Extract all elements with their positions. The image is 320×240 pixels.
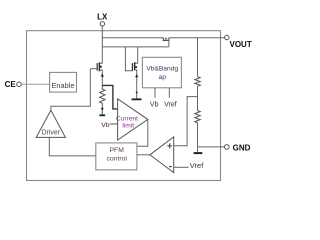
pin LX terminal bbox=[97, 13, 108, 26]
wire R2 to ground bbox=[197, 123, 199, 153]
wire rail to VOUT (top rail) bbox=[102, 37, 224, 39]
resistor Rsense bbox=[100, 85, 105, 114]
svg-text:Enable: Enable bbox=[51, 81, 74, 90]
svg-text:CE: CE bbox=[5, 80, 17, 89]
wire Vref stub bbox=[168, 88, 170, 98]
wire VOUT to divider bbox=[197, 38, 199, 77]
wire error comparator output to PFM bbox=[137, 154, 150, 156]
wire current sense to comparator bbox=[102, 85, 117, 109]
wire Q2 gate feed bbox=[125, 47, 132, 71]
pin CE terminal bbox=[5, 80, 22, 89]
wire CE to Enable bbox=[21, 83, 49, 85]
wire Vb stub bbox=[154, 88, 156, 98]
svg-text:Vb&Bandg: Vb&Bandg bbox=[146, 65, 178, 72]
svg-text:GND: GND bbox=[233, 144, 251, 153]
transistor M3 (sync switch, horizontal) bbox=[163, 38, 170, 47]
op-amp error comparator bbox=[150, 137, 174, 173]
ground (below Rsense) bbox=[99, 114, 105, 116]
ground (below Q2) bbox=[132, 98, 142, 100]
svg-text:PFM: PFM bbox=[110, 147, 125, 154]
svg-text:limit: limit bbox=[122, 123, 134, 130]
svg-text:control: control bbox=[106, 156, 127, 163]
wire feedback tap to + input bbox=[174, 97, 198, 146]
svg-text:Current: Current bbox=[116, 116, 138, 123]
wire gate rail (second rail) bbox=[102, 46, 169, 48]
IC outline box bbox=[27, 31, 221, 181]
svg-text:Vref: Vref bbox=[164, 101, 177, 108]
svg-text:LX: LX bbox=[97, 13, 108, 22]
svg-text:Vref: Vref bbox=[190, 161, 204, 170]
resistor R2 (lower divider) bbox=[195, 111, 200, 123]
svg-text:Vb: Vb bbox=[101, 122, 110, 129]
svg-text:VOUT: VOUT bbox=[230, 40, 252, 49]
wire Vref to - input bbox=[174, 166, 189, 168]
block PFM control bbox=[96, 143, 137, 170]
wire Driver output to Q1 gate bbox=[51, 69, 90, 111]
transistor Q1 (main switch NMOS) bbox=[90, 62, 104, 85]
wire PFM output to driver bbox=[49, 137, 96, 156]
transistor Q2 (diode-connected NMOS) bbox=[132, 47, 138, 99]
wire between divider resistors bbox=[197, 86, 199, 110]
wire Vb input to current limit bbox=[110, 123, 118, 125]
pin GND terminal bbox=[225, 144, 251, 153]
wire ground to GND pin bbox=[198, 146, 225, 148]
svg-text:Driver: Driver bbox=[41, 130, 60, 137]
wire current limit output to PFM bbox=[137, 119, 148, 146]
pin VOUT terminal bbox=[225, 35, 252, 49]
block Enable bbox=[50, 72, 77, 92]
resistor R1 (upper divider) bbox=[195, 77, 200, 86]
op-amp driver buffer bbox=[36, 110, 65, 137]
op-amp current limit comparator bbox=[116, 99, 148, 140]
svg-text:ap: ap bbox=[158, 74, 166, 81]
wire LX vertical to Q1 drain bbox=[99, 26, 102, 63]
ground (divider) bbox=[194, 152, 203, 154]
svg-text:Vb: Vb bbox=[150, 101, 159, 108]
block Vb&Bandgap bbox=[142, 57, 181, 88]
